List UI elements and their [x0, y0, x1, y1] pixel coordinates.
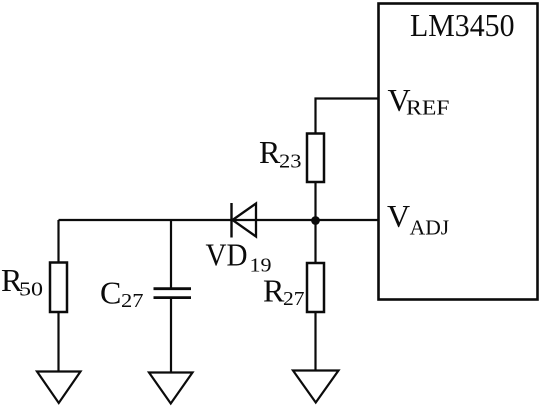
svg-text:R: R [259, 134, 281, 170]
wire VREF pin [316, 99, 379, 134]
svg-text:ADJ: ADJ [410, 216, 450, 240]
ground symbol under C27 [149, 373, 193, 404]
svg-text:27: 27 [121, 290, 144, 312]
wire VADJ horizontal [59, 219, 379, 221]
svg-text:27: 27 [283, 288, 305, 310]
svg-text:23: 23 [279, 150, 302, 172]
svg-text:50: 50 [19, 278, 43, 300]
svg-text:REF: REF [406, 96, 450, 120]
svg-text:LM3450: LM3450 [410, 7, 515, 43]
svg-text:V: V [387, 198, 410, 234]
ground symbol under R50 [37, 372, 81, 404]
resistor R50 body [50, 263, 67, 313]
diode VD19 triangle [233, 204, 257, 237]
svg-text:VD: VD [206, 237, 248, 273]
resistor R27 body [307, 263, 324, 312]
diode VD19 cathode bar [230, 203, 232, 238]
capacitor C27 bottom plate [154, 296, 192, 299]
IC U1 LM3450 box [379, 4, 538, 300]
resistor R50 stem top [57, 220, 59, 263]
resistor R23 body [307, 134, 324, 183]
wire R50 to ground [57, 312, 59, 372]
svg-text:R: R [263, 272, 285, 308]
ground symbol under R27 [293, 371, 339, 403]
wire R27 to ground [314, 312, 316, 371]
node junction dot [311, 216, 320, 225]
wire R23 bottom to R27 top through node [314, 182, 316, 263]
wire C27 bottom stem [170, 298, 172, 373]
wire C27 top stem [170, 220, 172, 288]
capacitor C27 top plate [154, 287, 192, 290]
svg-text:C: C [100, 275, 121, 311]
